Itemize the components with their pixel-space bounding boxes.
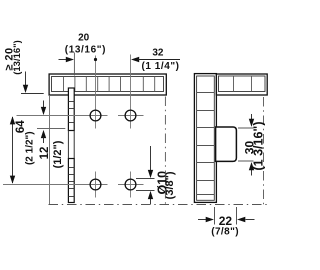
svg-text:64: 64 <box>15 120 27 133</box>
svg-text:(1 1/4"): (1 1/4") <box>141 61 179 72</box>
svg-text:(1 3/16"): (1 3/16") <box>252 121 266 170</box>
svg-text:20: 20 <box>78 33 90 44</box>
svg-text:(1/2"): (1/2") <box>52 140 64 168</box>
svg-text:(7/8"): (7/8") <box>211 227 239 238</box>
svg-text:(2 1/2"): (2 1/2") <box>25 131 36 165</box>
svg-text:32: 32 <box>152 48 164 59</box>
svg-text:12: 12 <box>39 147 51 160</box>
svg-text:(13/16"): (13/16") <box>12 40 23 75</box>
svg-text:(13/16"): (13/16") <box>65 44 106 55</box>
